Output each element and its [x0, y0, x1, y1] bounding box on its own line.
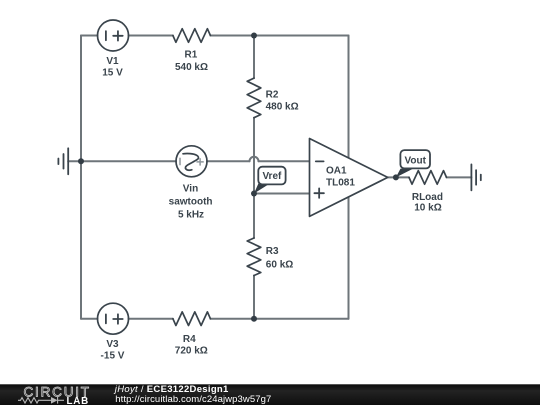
svg-text:R1: R1 [185, 50, 198, 61]
svg-text:5 kHz: 5 kHz [178, 210, 204, 221]
wire right rail [348, 36, 350, 319]
svg-text:V3: V3 [106, 339, 119, 350]
svg-text:TL081: TL081 [326, 178, 355, 189]
wire branch: R2 to R3 [253, 118, 255, 238]
wire left rail [80, 36, 82, 319]
svg-text:RLoad: RLoad [412, 192, 443, 203]
svg-text:sawtooth: sawtooth [169, 196, 213, 207]
node Vref [251, 191, 257, 197]
voltage source V1 [98, 20, 129, 51]
resistor R4 [173, 312, 211, 326]
svg-text:-15 V: -15 V [101, 351, 125, 362]
svg-text:R3: R3 [266, 246, 279, 257]
wire top: V1 to R1 [129, 35, 173, 37]
wire bottom: R4 to right rail [210, 318, 348, 320]
wire bottom: V3 to R4 [129, 318, 173, 320]
flag Vout [396, 150, 430, 177]
node A [251, 33, 257, 39]
svg-text:OA1: OA1 [326, 166, 347, 177]
svg-text:V1: V1 [106, 56, 119, 67]
wire op-amp output [388, 176, 409, 178]
svg-text:R4: R4 [183, 334, 196, 345]
voltage source V3 [98, 303, 129, 334]
ground left [67, 148, 69, 174]
wire bottom: rail to V3 [81, 318, 98, 320]
wire branch: R3 to bottom node [253, 276, 255, 319]
wire hop over branch [250, 157, 259, 162]
wire rail to Vin [81, 160, 176, 162]
wire Vin to hop [207, 160, 250, 162]
logo resistor-diode [18, 397, 64, 404]
wire branch: node A to R2 [253, 36, 255, 79]
svg-text:10 kΩ: 10 kΩ [414, 203, 441, 214]
svg-text:LAB: LAB [67, 396, 90, 405]
svg-text:R2: R2 [266, 90, 279, 101]
wire ground-left to rail [68, 160, 81, 162]
svg-text:540 kΩ: 540 kΩ [175, 62, 208, 73]
wire top: R1 to right rail [210, 35, 348, 37]
op-amp OA1 [310, 139, 388, 217]
svg-text:Vref: Vref [262, 171, 282, 182]
node bottom [251, 316, 257, 322]
source Vin [176, 146, 207, 177]
svg-text:http://circuitlab.com/c24ajwp3: http://circuitlab.com/c24ajwp3w57g7 [115, 394, 271, 405]
node ground-left junction [78, 158, 84, 164]
node Vout [393, 174, 399, 180]
resistor R3 [247, 238, 261, 276]
wire hop to op-amp minus input [259, 160, 310, 162]
resistor R2 [247, 78, 261, 118]
svg-text:Vin: Vin [183, 183, 198, 194]
wire RLoad to ground-right [447, 176, 472, 178]
wire top: rail to V1 [81, 35, 98, 37]
wire Vref node to op-amp plus input [254, 193, 310, 195]
svg-text:60 kΩ: 60 kΩ [266, 259, 293, 270]
svg-text:720 kΩ: 720 kΩ [175, 345, 208, 356]
resistor R1 [173, 29, 211, 43]
resistor RLoad [409, 171, 447, 185]
svg-text:480 kΩ: 480 kΩ [266, 102, 299, 113]
svg-text:Vout: Vout [404, 155, 426, 166]
flag Vref [254, 167, 286, 194]
svg-text:15 V: 15 V [102, 68, 123, 79]
footer bar [0, 384, 540, 405]
ground right [470, 164, 472, 190]
